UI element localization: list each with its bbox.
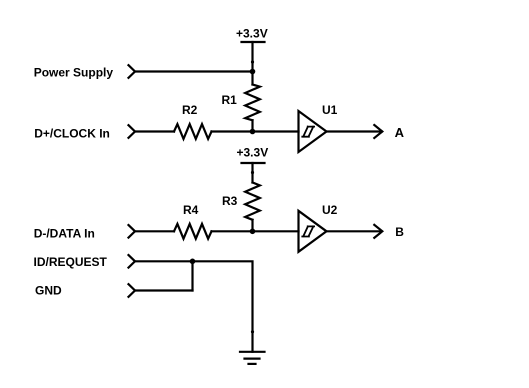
- arrow head at A: [374, 125, 382, 138]
- wire U1 output to A: [327, 130, 382, 132]
- svg-text:U1: U1: [322, 103, 338, 117]
- svg-text:+3.3V: +3.3V: [236, 27, 268, 41]
- svg-text:R2: R2: [182, 103, 198, 117]
- resistor R4 (horizontal): [174, 224, 212, 239]
- wire Power Supply to +3.3V rail: [135, 70, 253, 72]
- junction: Power Supply / +3.3V / R1 top: [250, 69, 256, 75]
- op-amp U1 (Schmitt buffer triangle): [299, 111, 327, 152]
- svg-text:ID/REQUEST: ID/REQUEST: [34, 255, 108, 269]
- joint dot on +3.3V drop wire: [251, 60, 254, 63]
- resistor R1 (vertical): [245, 72, 260, 132]
- svg-text:B: B: [395, 225, 404, 239]
- svg-text:U2: U2: [322, 203, 338, 217]
- junction: R3 bottom / D- line: [250, 229, 256, 235]
- port Power Supply (input chevron): [129, 65, 136, 78]
- op-amp U2 (Schmitt buffer triangle): [299, 211, 327, 252]
- arrow head at B: [374, 225, 382, 238]
- svg-text:D-/DATA In: D-/DATA In: [34, 226, 95, 240]
- power symbol +3.3V (second): [242, 163, 265, 183]
- wire R4 to U2 input: [212, 230, 299, 232]
- svg-text:D+/CLOCK In: D+/CLOCK In: [34, 127, 110, 141]
- wire D+/CLOCK In to R2: [135, 130, 174, 132]
- port ID/REQUEST (input chevron): [129, 255, 136, 268]
- joint dot on ground drop wire: [251, 330, 254, 333]
- port D+/CLOCK In (input chevron): [129, 125, 136, 138]
- joint dot on second +3.3V drop wire: [251, 171, 254, 174]
- junction: ID/REQUEST / GND stub: [190, 259, 196, 265]
- wire D-/DATA In to R4: [135, 230, 174, 232]
- port D-/DATA In (input chevron): [129, 225, 136, 238]
- svg-text:R1: R1: [222, 93, 238, 107]
- port GND (input chevron): [129, 284, 136, 297]
- wire ID/REQUEST to ground rail: [135, 261, 253, 352]
- wire U2 output to B: [327, 230, 382, 232]
- resistor R3 (vertical): [245, 183, 260, 232]
- svg-text:R3: R3: [222, 194, 238, 208]
- wire GND to stub: [135, 289, 193, 291]
- wire R2 to U1 input: [212, 130, 299, 132]
- svg-text:Power Supply: Power Supply: [34, 65, 114, 79]
- junction: R1 bottom / D+ line: [250, 129, 256, 135]
- svg-text:A: A: [395, 125, 405, 140]
- svg-text:GND: GND: [35, 284, 62, 298]
- wire junction down to GND line: [191, 261, 193, 290]
- resistor R2 (horizontal): [174, 124, 212, 139]
- power symbol +3.3V (first): [242, 42, 265, 72]
- svg-text:R4: R4: [183, 203, 199, 217]
- ground symbol: [240, 352, 265, 364]
- svg-text:+3.3V: +3.3V: [237, 146, 269, 160]
